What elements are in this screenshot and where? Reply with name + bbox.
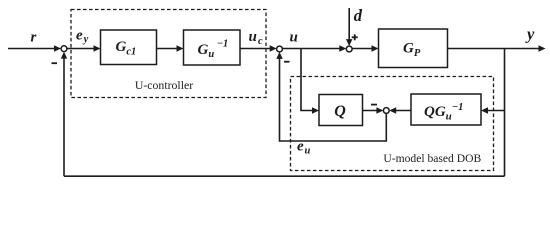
wire r input [8,48,57,50]
svg-text:U-model based DOB: U-model based DOB [383,152,481,165]
wire y branch to QGu-1 [485,110,505,112]
svg-text:d: d [354,6,363,25]
arrowhead into QGu-1 [481,107,488,113]
svg-text:Q: Q [334,103,346,120]
arrowhead into Gp [372,45,379,51]
wire d input [348,8,350,42]
wire sum3 to Gp [352,48,374,50]
block Gp [379,29,448,68]
block Gu-1 [184,30,241,65]
minus sign at sum1 [52,62,58,64]
wire y feedback vertical [504,49,506,177]
minus sign at sum2 [284,61,290,63]
wire Gc1 to Gu-1 [157,48,180,50]
block Q [319,95,363,126]
summing junction sum2 [277,46,283,52]
svg-text:y: y [525,25,535,44]
wire sum1 to Gc1 [67,48,97,50]
arrowhead output y [539,45,546,51]
arrowhead into Gu-1 [177,45,184,51]
svg-text:U-controller: U-controller [135,78,193,92]
wire Gp to output y [448,48,543,50]
minus sign at sumD [371,104,377,106]
summing junction sum3 [346,46,352,52]
dashed box U-model based DOB [291,77,494,171]
wire u tap down to Q [301,49,315,111]
block QGu-1 [411,94,481,125]
arrowhead Q into sumD [376,107,383,113]
arrowhead into Gc1 [94,45,101,51]
wire left feedback up to sum1 [63,56,65,177]
plus sign at sum3 [352,36,358,38]
dashed box U-controller [71,10,266,98]
svg-text:u: u [290,30,298,46]
arrowhead into sum3 [339,45,346,51]
wire Q to sumD [363,110,380,112]
arrowhead eu up into sum2 [276,52,282,59]
wire sum2 to sum3 [282,48,342,50]
summing junction sumD [383,108,389,114]
wire Gu-1 to sum2 [240,48,273,50]
arrowhead feedback up into sum1 [61,52,67,59]
svg-text:r: r [31,30,37,46]
arrowhead d into sum3 [346,39,352,46]
arrowhead into Q [312,107,319,113]
summing junction sum1 [61,46,67,52]
arrowhead into sum1 [54,45,61,51]
wire QGu-1 to sumD [393,110,411,112]
block Gc1 [101,30,157,65]
arrowhead QGu-1 into sumD [389,107,396,113]
wire sumD down and left to eu feedback [280,56,387,141]
arrowhead into sum2 [270,45,277,51]
wire bottom feedback [64,175,505,177]
